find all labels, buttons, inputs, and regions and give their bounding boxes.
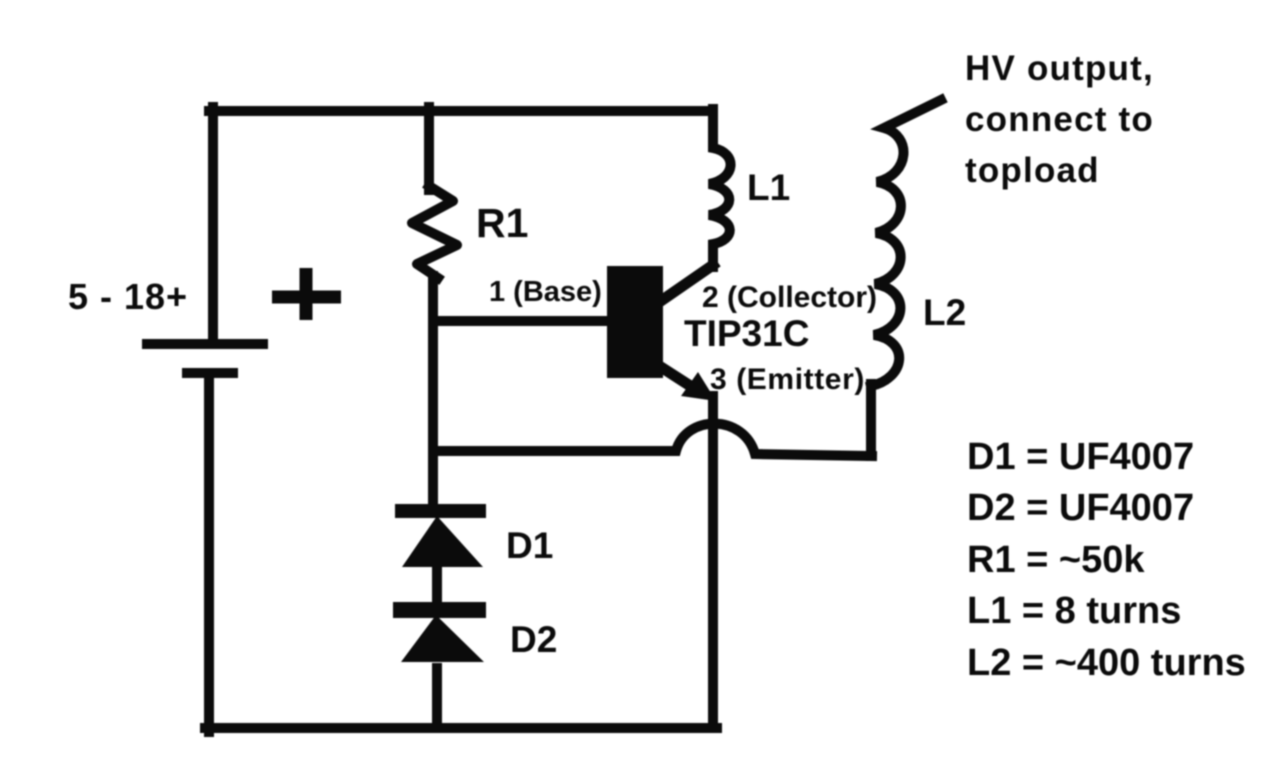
resistor R1 bbox=[412, 186, 457, 278]
svg-text:5 - 18+: 5 - 18+ bbox=[68, 276, 188, 317]
inductor L2 bbox=[871, 100, 941, 386]
diode D1 triangle bbox=[402, 516, 483, 567]
svg-text:D2 = UF4007: D2 = UF4007 bbox=[967, 487, 1194, 529]
wire collector diagonal lead bbox=[658, 265, 713, 303]
wire lower horizontal with hop over emitter wire bbox=[433, 424, 872, 456]
wire L2 bottom lead bbox=[866, 384, 876, 456]
svg-text:topload: topload bbox=[965, 151, 1100, 190]
battery plus sign bbox=[272, 268, 341, 320]
wire emitter diagonal lead bbox=[650, 360, 692, 387]
svg-text:HV output,: HV output, bbox=[965, 49, 1154, 88]
svg-text:L1: L1 bbox=[747, 167, 790, 208]
wire middle branch (R1 bottom to diode D1, through base node) bbox=[428, 276, 438, 507]
svg-text:L2 = ~400 turns: L2 = ~400 turns bbox=[967, 642, 1246, 684]
wire emitter vertical down to bottom rail bbox=[708, 396, 718, 728]
svg-text:3 (Emitter): 3 (Emitter) bbox=[710, 363, 865, 396]
wire below D2 to bottom rail bbox=[432, 668, 442, 728]
svg-text:L1 = 8 turns: L1 = 8 turns bbox=[967, 590, 1181, 632]
svg-text:L2: L2 bbox=[923, 292, 966, 333]
svg-text:TIP31C: TIP31C bbox=[684, 313, 809, 354]
wire left vertical lower (battery negative lead) bbox=[204, 378, 214, 732]
wire left vertical (battery positive lead) bbox=[208, 107, 218, 340]
wire top rail bbox=[209, 106, 711, 116]
emitter arrowhead bbox=[681, 372, 716, 401]
battery BT1 negative plate bbox=[182, 368, 238, 378]
svg-text:D1 = UF4007: D1 = UF4007 bbox=[967, 436, 1194, 478]
wire base lead bbox=[433, 316, 607, 326]
svg-text:D1: D1 bbox=[506, 525, 553, 566]
diode D2 cathode bar bbox=[393, 602, 486, 618]
svg-text:R1 = ~50k: R1 = ~50k bbox=[967, 539, 1145, 581]
wire bottom rail bbox=[205, 723, 717, 733]
inductor L1 bbox=[709, 109, 731, 267]
diode D1 cathode bar bbox=[395, 504, 486, 518]
svg-text:D2: D2 bbox=[510, 619, 557, 660]
svg-text:2 (Collector): 2 (Collector) bbox=[702, 281, 877, 314]
wire middle branch top (R1 upper lead) bbox=[424, 107, 434, 190]
svg-text:1 (Base): 1 (Base) bbox=[489, 276, 602, 308]
svg-text:connect to: connect to bbox=[965, 100, 1154, 139]
wire diode interconnect D1-D2 bbox=[432, 566, 442, 612]
diode D2 triangle bbox=[401, 615, 484, 662]
svg-text:R1: R1 bbox=[476, 200, 528, 246]
battery BT1 positive plate bbox=[142, 339, 268, 349]
transistor Q1 TIP31C body bbox=[607, 266, 663, 378]
